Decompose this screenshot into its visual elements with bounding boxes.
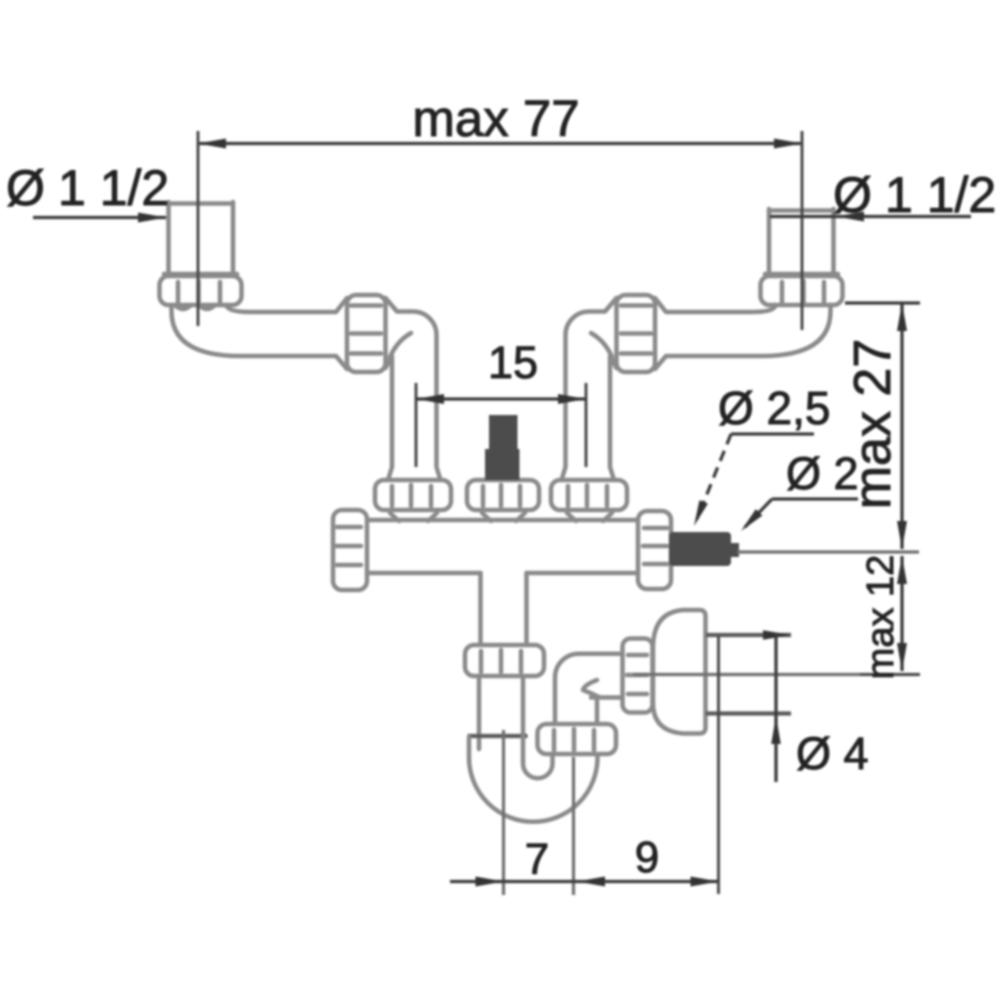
svg-text:max 27: max 27 — [844, 339, 902, 510]
svg-text:max 12: max 12 — [860, 555, 902, 680]
svg-text:Ø: Ø — [833, 167, 872, 223]
svg-text:Ø: Ø — [6, 160, 45, 216]
svg-text:9: 9 — [635, 833, 659, 882]
svg-text:15: 15 — [488, 337, 538, 388]
svg-text:1 1/2: 1 1/2 — [885, 167, 996, 223]
svg-text:max 77: max 77 — [412, 90, 579, 147]
svg-text:Ø 2,5: Ø 2,5 — [718, 382, 831, 434]
svg-text:7: 7 — [525, 835, 549, 884]
svg-text:1 1/2: 1 1/2 — [58, 160, 169, 216]
svg-text:Ø 4: Ø 4 — [796, 728, 869, 779]
